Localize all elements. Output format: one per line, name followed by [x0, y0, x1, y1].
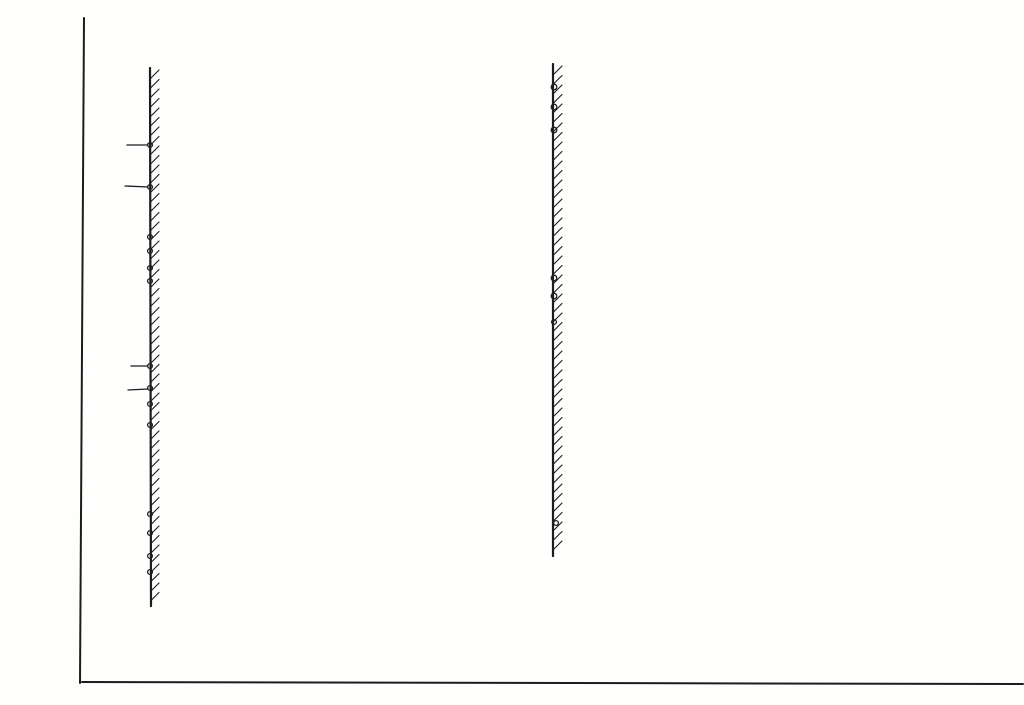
pin 5 node: [148, 143, 153, 148]
left connector busbar: [150, 68, 151, 606]
pin 19 FRC-MP240 node: [551, 84, 557, 90]
pin 17 FRC node: [551, 104, 557, 110]
pin 4 node: [148, 570, 153, 575]
pin 9 To SCAL node: [551, 275, 557, 281]
GROUP: schematic components: [0, 0, 1, 1]
GROUP: title blocks: [0, 0, 1, 1]
sheet bottom border: [82, 682, 1023, 684]
busbar hatching: [554, 66, 562, 549]
pin 1 node: [148, 185, 153, 190]
pin 15 node: [148, 364, 153, 369]
pin 22 node: [148, 266, 153, 271]
wire stub pin12: [128, 389, 148, 390]
pin 12 node: [148, 386, 153, 391]
GROUP: left connector bar: [125, 68, 159, 606]
pin 16 node: [554, 521, 559, 526]
pin 18 0V node: [551, 127, 557, 133]
pin 8 To SCAL node: [551, 293, 557, 299]
pin 13 node: [148, 423, 153, 428]
pin 2 node: [148, 531, 153, 536]
GROUP: pcb: [0, 0, 1, 1]
wire stub -FS: [127, 144, 148, 146]
pin 6 node: [148, 554, 153, 559]
wire stub pin15: [131, 365, 148, 367]
pin 20 node: [148, 235, 153, 240]
GROUP: right connector bar: [551, 64, 562, 556]
pin 10 FRC node: [552, 320, 557, 325]
sheet left border: [80, 18, 84, 683]
wire stub 1G: [125, 186, 148, 187]
pin 14 node: [148, 402, 153, 407]
right connector busbar: [552, 64, 554, 556]
pin 3 node: [148, 249, 153, 254]
GROUP: schematic text: [0, 0, 1, 1]
GROUP: schematic wires: [0, 0, 1, 1]
pin 11 node: [148, 279, 153, 284]
pin 7 node: [148, 512, 153, 517]
busbar hatching: [151, 70, 159, 601]
